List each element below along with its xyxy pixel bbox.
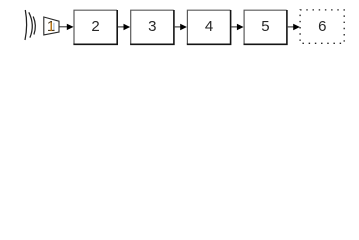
wire 1 to 2 [59, 26, 68, 28]
box 3 [130, 10, 174, 44]
arrowhead into box 3 [124, 24, 131, 30]
arrowhead into box 5 [237, 24, 244, 30]
svg-text:2: 2 [91, 18, 99, 35]
wire 3 to 4 [175, 26, 182, 28]
svg-text:4: 4 [205, 18, 213, 35]
arrowhead into box 2 [67, 24, 74, 30]
speaker horn block 1 [44, 17, 59, 35]
background [0, 0, 359, 48]
wire 5 to 6 [288, 26, 295, 28]
box 6 dotted [300, 10, 344, 43]
wire 4 to 5 [231, 26, 238, 28]
wire 2 to 3 [118, 26, 125, 28]
svg-text:5: 5 [261, 18, 269, 35]
sound wave arc middle [29, 12, 33, 37]
box 2 [73, 10, 117, 44]
box 5 [244, 10, 287, 44]
box 4 [187, 10, 231, 44]
arrowhead into box 4 [180, 24, 187, 30]
sound wave arc outer [25, 10, 27, 40]
arrowhead into box 6 [293, 24, 300, 30]
svg-text:6: 6 [318, 18, 326, 35]
sound wave arc inner [33, 17, 35, 35]
horn inner rim line [53, 23, 55, 30]
svg-text:3: 3 [148, 18, 156, 35]
